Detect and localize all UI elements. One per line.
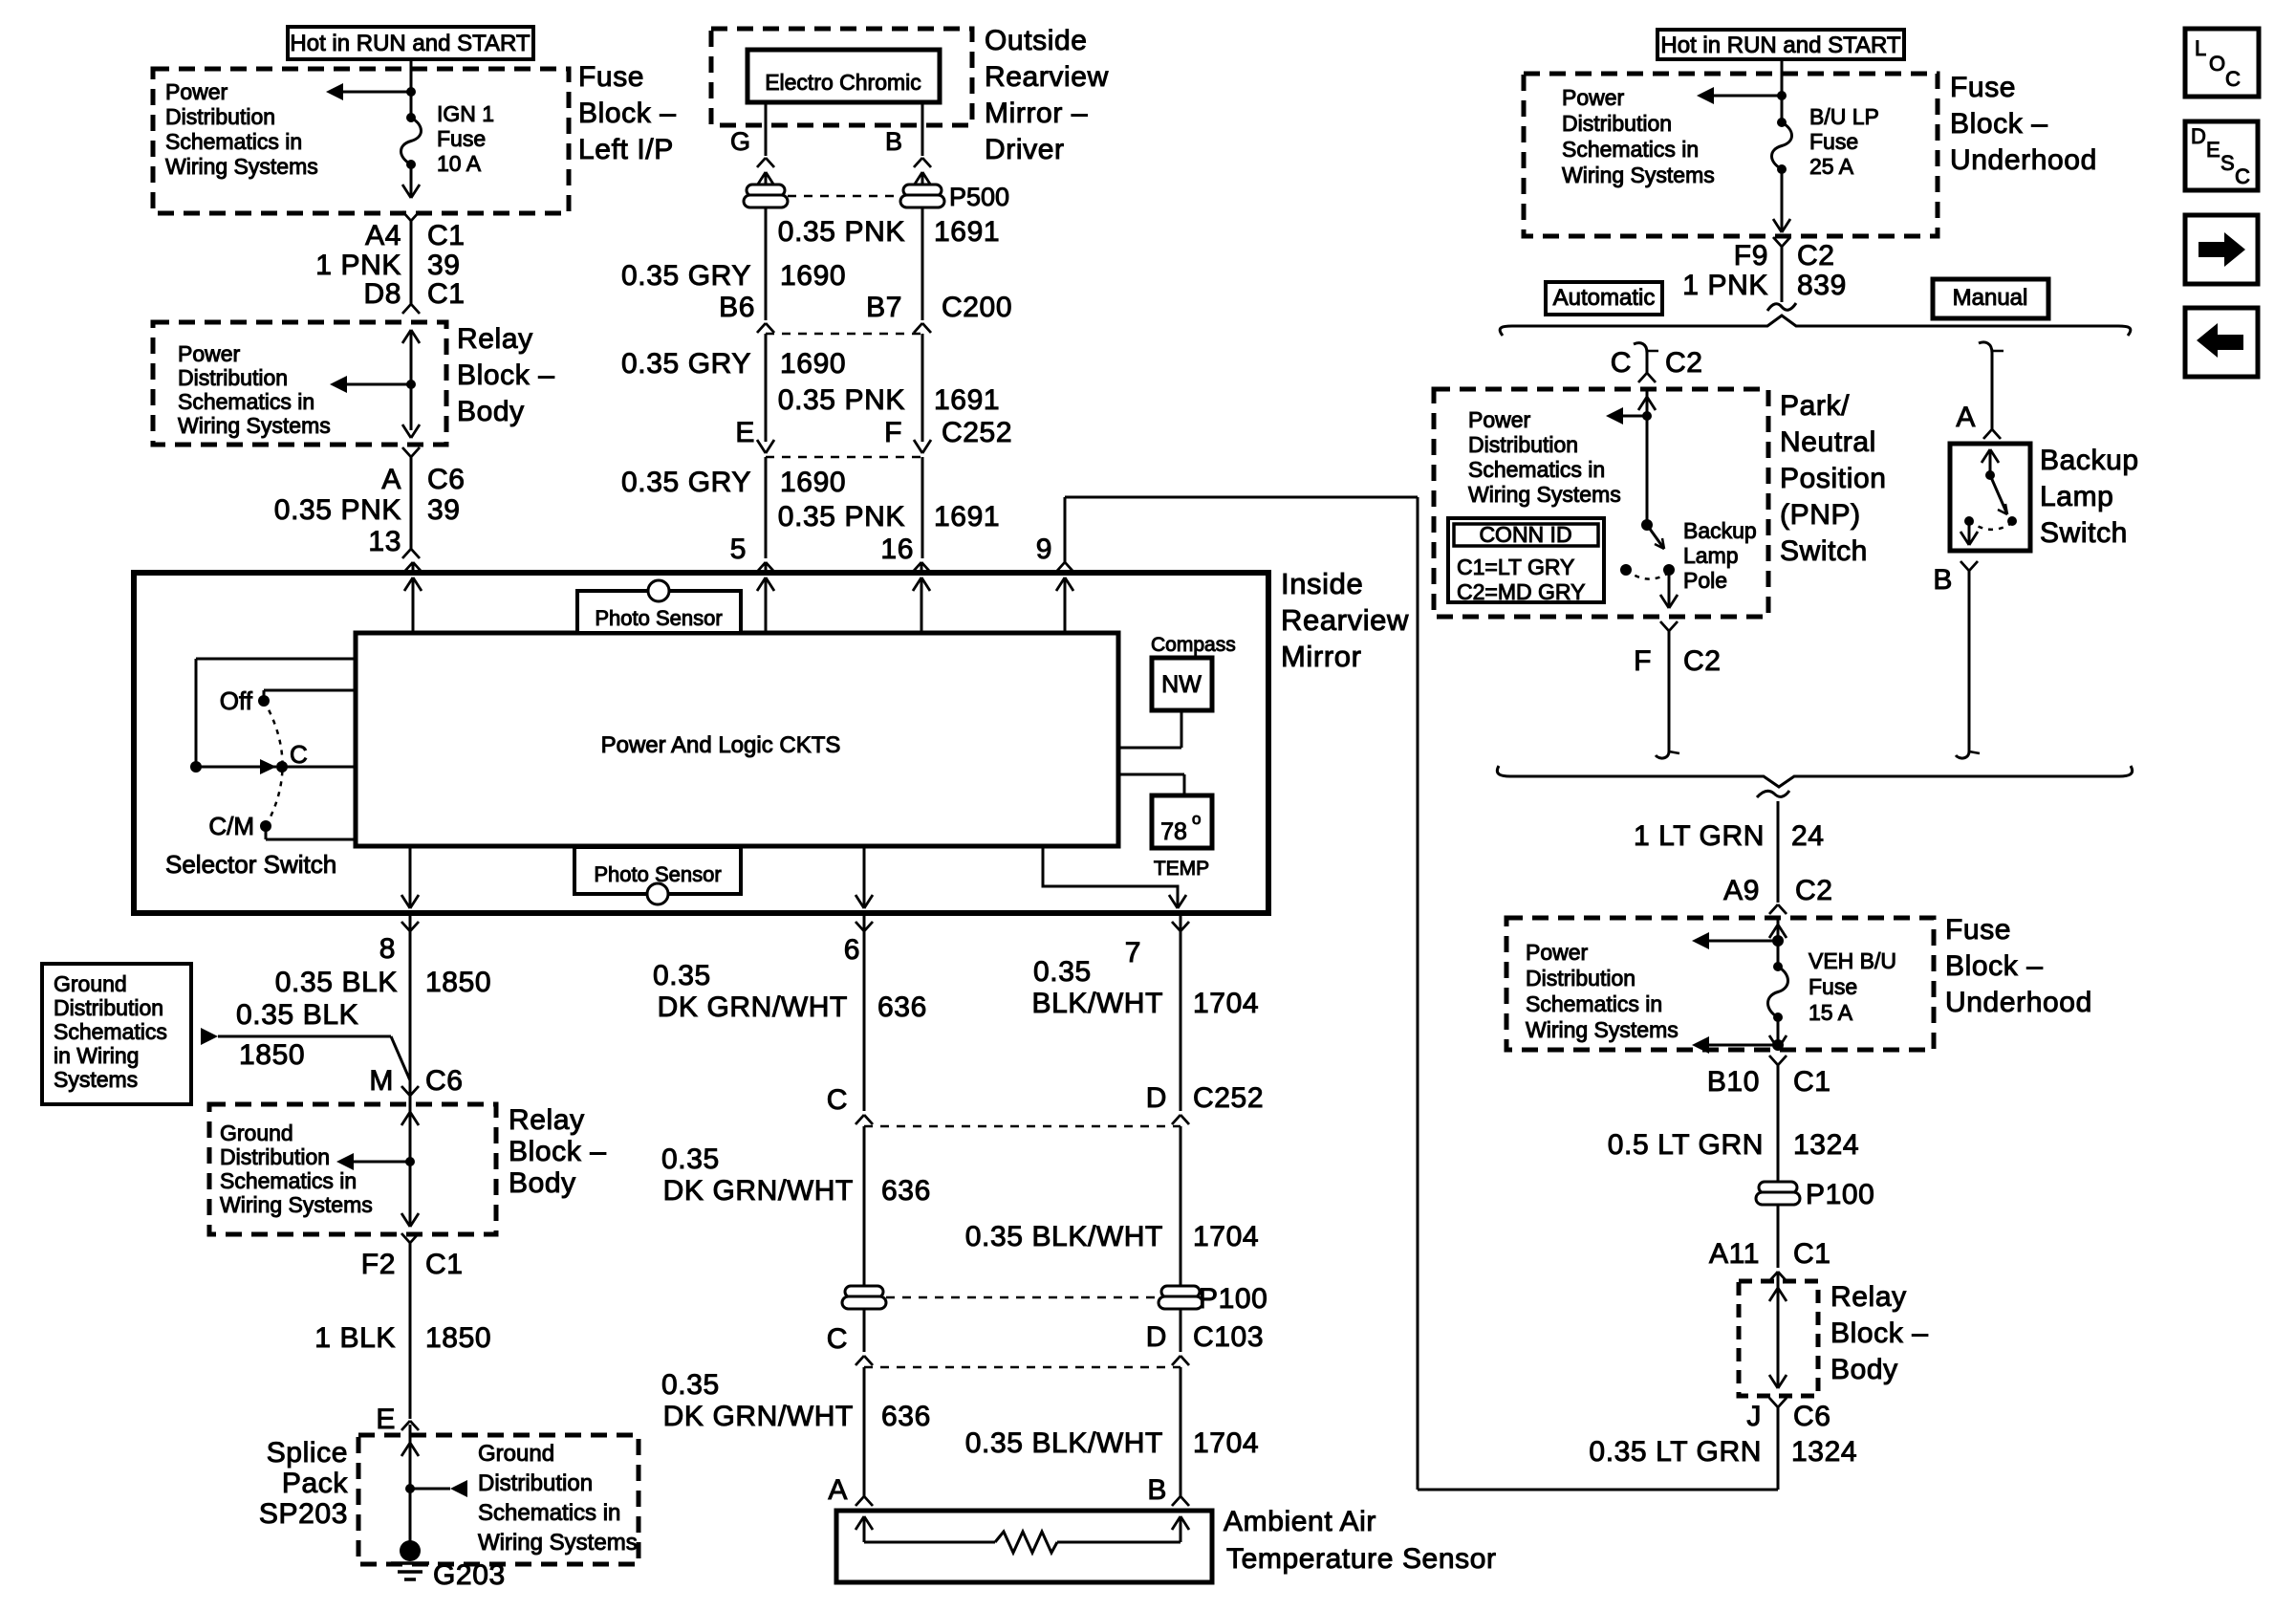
svg-text:SP203: SP203 [259, 1498, 348, 1530]
svg-text:Block –: Block – [1950, 108, 2048, 140]
svg-text:DK GRN/WHT: DK GRN/WHT [663, 1175, 854, 1207]
svg-text:Switch: Switch [2040, 517, 2128, 549]
svg-text:Ground: Ground [478, 1441, 554, 1467]
svg-text:1 LT GRN: 1 LT GRN [1634, 820, 1765, 852]
svg-text:7: 7 [1125, 937, 1141, 969]
svg-text:0.5 LT GRN: 0.5 LT GRN [1608, 1129, 1764, 1161]
svg-text:C6: C6 [425, 1065, 464, 1097]
svg-text:Rearview: Rearview [1281, 603, 1409, 637]
svg-text:Distribution: Distribution [54, 995, 163, 1020]
svg-text:in Wiring: in Wiring [54, 1043, 139, 1068]
svg-text:Manual: Manual [1953, 285, 2028, 311]
svg-text:1690: 1690 [780, 467, 846, 498]
svg-text:C1: C1 [427, 278, 466, 310]
svg-text:Hot in RUN and START: Hot in RUN and START [290, 31, 531, 56]
svg-text:Lamp: Lamp [2040, 481, 2113, 512]
svg-text:D: D [2191, 124, 2206, 148]
svg-text:Distribution: Distribution [220, 1144, 330, 1169]
svg-text:Mirror: Mirror [1281, 640, 1362, 673]
svg-text:Pack: Pack [282, 1468, 348, 1499]
svg-text:C2: C2 [1665, 347, 1703, 379]
svg-text:A: A [381, 464, 401, 495]
svg-text:39: 39 [427, 494, 461, 526]
svg-text:C1: C1 [427, 220, 466, 251]
svg-text:1850: 1850 [239, 1039, 305, 1071]
svg-text:Power: Power [1562, 85, 1625, 110]
svg-text:C103: C103 [1193, 1321, 1264, 1353]
svg-text:E: E [2206, 138, 2220, 162]
svg-text:Neutral: Neutral [1780, 426, 1876, 458]
svg-text:Body: Body [1830, 1354, 1898, 1385]
svg-text:B: B [1933, 564, 1953, 596]
svg-text:B7: B7 [866, 292, 902, 323]
svg-text:Block –: Block – [578, 98, 677, 129]
svg-text:C6: C6 [427, 464, 466, 495]
svg-text:F2: F2 [361, 1249, 396, 1280]
svg-text:BLK/WHT: BLK/WHT [1031, 988, 1163, 1019]
svg-text:Relay: Relay [509, 1104, 585, 1136]
svg-text:Block –: Block – [1830, 1317, 1929, 1349]
svg-text:C2: C2 [1797, 240, 1835, 272]
svg-text:Fuse: Fuse [1950, 72, 2016, 103]
svg-text:Ground: Ground [54, 971, 127, 996]
svg-text:Schematics: Schematics [54, 1019, 167, 1044]
svg-text:1691: 1691 [934, 216, 1000, 248]
svg-text:Off: Off [220, 686, 253, 715]
svg-text:A4: A4 [365, 220, 401, 251]
svg-text:1690: 1690 [780, 348, 846, 380]
svg-text:8: 8 [379, 933, 396, 965]
svg-text:C6: C6 [1793, 1401, 1831, 1432]
svg-text:Schematics in: Schematics in [220, 1168, 357, 1193]
svg-text:839: 839 [1797, 270, 1847, 301]
svg-text:Selector Switch: Selector Switch [165, 850, 336, 879]
svg-text:Compass: Compass [1151, 634, 1236, 656]
svg-text:Fuse: Fuse [1809, 129, 1858, 154]
svg-text:P100: P100 [1806, 1179, 1874, 1210]
svg-text:Pole: Pole [1683, 568, 1727, 593]
svg-text:NW: NW [1161, 671, 1202, 698]
svg-text:C/M: C/M [208, 812, 254, 840]
svg-text:Wiring Systems: Wiring Systems [1562, 163, 1715, 187]
svg-text:Ambient Air: Ambient Air [1224, 1506, 1376, 1537]
svg-text:Relay: Relay [457, 323, 533, 355]
svg-text:IGN 1: IGN 1 [437, 101, 494, 126]
svg-text:Fuse: Fuse [437, 126, 486, 151]
svg-text:1691: 1691 [934, 384, 1000, 416]
svg-text:Left I/P: Left I/P [578, 134, 674, 165]
svg-text:F: F [1634, 645, 1652, 677]
svg-text:Wiring Systems: Wiring Systems [220, 1192, 373, 1217]
svg-text:Fuse: Fuse [1809, 974, 1857, 999]
svg-text:Splice: Splice [267, 1437, 348, 1469]
svg-text:15 A: 15 A [1809, 1000, 1853, 1025]
svg-text:CONN ID: CONN ID [1479, 522, 1571, 547]
svg-text:S: S [2220, 151, 2235, 175]
svg-text:Power: Power [165, 79, 228, 104]
svg-text:0.35 PNK: 0.35 PNK [274, 494, 401, 526]
svg-text:1324: 1324 [1791, 1436, 1857, 1468]
svg-text:E: E [735, 417, 755, 448]
svg-text:C252: C252 [1193, 1082, 1264, 1114]
svg-text:D: D [1146, 1082, 1167, 1114]
svg-text:B10: B10 [1707, 1066, 1760, 1098]
svg-text:C: C [1611, 347, 1632, 379]
svg-text:A9: A9 [1723, 875, 1760, 906]
svg-text:Schematics in: Schematics in [1562, 137, 1699, 162]
svg-text:(PNP): (PNP) [1780, 499, 1861, 531]
svg-text:25 A: 25 A [1809, 154, 1854, 179]
svg-text:636: 636 [877, 991, 927, 1023]
svg-text:G203: G203 [433, 1559, 506, 1591]
svg-text:78: 78 [1160, 818, 1187, 845]
svg-text:9: 9 [1036, 533, 1052, 565]
svg-text:Power: Power [1468, 407, 1531, 432]
svg-text:1 PNK: 1 PNK [1682, 270, 1768, 301]
svg-text:Position: Position [1780, 463, 1887, 494]
svg-text:Relay: Relay [1830, 1281, 1907, 1313]
svg-text:Underhood: Underhood [1945, 987, 2092, 1018]
svg-text:13: 13 [368, 526, 401, 557]
svg-text:0.35 BLK: 0.35 BLK [236, 999, 358, 1031]
svg-text:1704: 1704 [1193, 1221, 1259, 1252]
svg-text:A: A [1956, 402, 1976, 433]
svg-text:Ground: Ground [220, 1121, 293, 1145]
svg-text:C2: C2 [1683, 645, 1722, 677]
svg-text:0.35: 0.35 [653, 960, 711, 991]
svg-text:1 BLK: 1 BLK [314, 1322, 396, 1354]
svg-text:0.35 GRY: 0.35 GRY [621, 260, 751, 292]
svg-text:636: 636 [881, 1175, 931, 1207]
svg-text:C2: C2 [1795, 875, 1833, 906]
svg-text:C252: C252 [942, 417, 1012, 448]
svg-text:0.35 BLK/WHT: 0.35 BLK/WHT [965, 1427, 1163, 1459]
svg-text:Body: Body [457, 396, 525, 427]
svg-text:Body: Body [509, 1167, 576, 1199]
svg-text:5: 5 [730, 533, 747, 565]
svg-text:Distribution: Distribution [1468, 432, 1578, 457]
svg-text:E: E [376, 1404, 396, 1435]
svg-text:Hot in RUN and START: Hot in RUN and START [1660, 33, 1901, 58]
svg-text:Backup: Backup [2040, 445, 2139, 476]
svg-text:TEMP: TEMP [1154, 858, 1209, 880]
svg-text:A11: A11 [1709, 1238, 1760, 1270]
svg-text:Block –: Block – [457, 359, 555, 391]
svg-text:Outside: Outside [985, 25, 1088, 56]
svg-text:Automatic: Automatic [1553, 285, 1656, 311]
svg-text:Temperature Sensor: Temperature Sensor [1226, 1543, 1497, 1575]
svg-text:G: G [730, 127, 750, 156]
svg-text:6: 6 [844, 934, 860, 966]
svg-text:Fuse: Fuse [1945, 914, 2011, 946]
svg-text:Lamp: Lamp [1683, 543, 1739, 568]
svg-text:Wiring Systems: Wiring Systems [1468, 482, 1621, 507]
svg-text:L: L [2195, 36, 2206, 60]
svg-text:1704: 1704 [1193, 1427, 1259, 1459]
svg-text:Systems: Systems [54, 1067, 138, 1092]
svg-text:0.35 PNK: 0.35 PNK [778, 501, 905, 533]
svg-text:10 A: 10 A [437, 151, 482, 176]
svg-text:1 PNK: 1 PNK [315, 250, 401, 281]
svg-text:Electro Chromic: Electro Chromic [765, 70, 921, 95]
svg-text:C200: C200 [942, 292, 1012, 323]
svg-text:Power: Power [178, 341, 241, 366]
svg-text:Distribution: Distribution [165, 104, 275, 129]
svg-text:C1=LT GRY: C1=LT GRY [1457, 555, 1574, 579]
svg-text:M: M [369, 1065, 394, 1097]
svg-text:C: C [2225, 67, 2241, 91]
svg-text:0.35 GRY: 0.35 GRY [621, 467, 751, 498]
svg-text:B/U LP: B/U LP [1809, 104, 1879, 129]
svg-text:0.35 PNK: 0.35 PNK [778, 216, 905, 248]
svg-text:C: C [290, 740, 308, 769]
svg-text:Power And Logic CKTS: Power And Logic CKTS [601, 732, 841, 758]
svg-text:P500: P500 [949, 183, 1009, 211]
svg-text:B: B [885, 127, 902, 156]
svg-text:DK GRN/WHT: DK GRN/WHT [663, 1401, 854, 1432]
svg-text:Fuse: Fuse [578, 61, 644, 93]
svg-text:F9: F9 [1734, 240, 1768, 272]
svg-text:0.35 GRY: 0.35 GRY [621, 348, 751, 380]
svg-text:Schematics in: Schematics in [478, 1500, 620, 1526]
svg-text:B: B [1147, 1474, 1167, 1506]
svg-text:D8: D8 [363, 278, 401, 310]
svg-text:C2=MD GRY: C2=MD GRY [1457, 579, 1585, 604]
svg-text:Block –: Block – [1945, 950, 2044, 982]
svg-text:636: 636 [881, 1401, 931, 1432]
svg-text:B6: B6 [719, 292, 755, 323]
svg-text:F: F [884, 417, 902, 448]
svg-text:1690: 1690 [780, 260, 846, 292]
svg-text:Driver: Driver [985, 134, 1065, 165]
svg-text:1324: 1324 [1793, 1129, 1859, 1161]
svg-text:0.35: 0.35 [661, 1143, 720, 1175]
svg-text:o: o [1192, 810, 1201, 828]
svg-text:0.35: 0.35 [1033, 956, 1092, 988]
svg-text:Wiring Systems: Wiring Systems [165, 154, 318, 179]
svg-text:Schematics in: Schematics in [1526, 991, 1662, 1016]
svg-text:C: C [827, 1323, 848, 1355]
svg-text:Park/: Park/ [1780, 390, 1850, 422]
svg-text:Mirror –: Mirror – [985, 98, 1088, 129]
svg-text:Switch: Switch [1780, 535, 1868, 567]
svg-text:DK GRN/WHT: DK GRN/WHT [658, 991, 848, 1023]
svg-text:C1: C1 [1793, 1238, 1831, 1270]
svg-text:Distribution: Distribution [1526, 966, 1635, 991]
svg-text:Power: Power [1526, 940, 1589, 965]
svg-text:1704: 1704 [1193, 988, 1259, 1019]
svg-text:Backup: Backup [1683, 518, 1757, 543]
svg-text:Schematics in: Schematics in [178, 389, 314, 414]
svg-text:C: C [2235, 164, 2250, 188]
svg-text:0.35 PNK: 0.35 PNK [778, 384, 905, 416]
svg-text:Distribution: Distribution [478, 1470, 593, 1496]
svg-text:Distribution: Distribution [1562, 111, 1672, 136]
svg-text:Rearview: Rearview [985, 61, 1109, 93]
svg-text:24: 24 [1791, 820, 1825, 852]
svg-text:C: C [827, 1084, 848, 1116]
svg-text:0.35: 0.35 [661, 1369, 720, 1401]
svg-text:C1: C1 [1793, 1066, 1831, 1098]
svg-text:A: A [828, 1474, 848, 1506]
svg-text:16: 16 [880, 533, 914, 565]
svg-text:Inside: Inside [1281, 567, 1363, 600]
svg-text:Wiring Systems: Wiring Systems [478, 1530, 638, 1556]
svg-text:Underhood: Underhood [1950, 144, 2097, 176]
svg-text:VEH B/U: VEH B/U [1809, 948, 1896, 973]
svg-text:Block –: Block – [509, 1136, 607, 1167]
svg-text:J: J [1746, 1401, 1762, 1432]
svg-text:Wiring Systems: Wiring Systems [1526, 1017, 1679, 1042]
svg-text:C1: C1 [425, 1249, 464, 1280]
svg-text:1850: 1850 [425, 967, 491, 998]
svg-text:O: O [2209, 52, 2225, 76]
svg-text:P100: P100 [1199, 1283, 1267, 1315]
svg-text:1850: 1850 [425, 1322, 491, 1354]
svg-text:0.35 LT GRN: 0.35 LT GRN [1589, 1436, 1762, 1468]
svg-text:Schematics in: Schematics in [165, 129, 302, 154]
svg-text:Photo Sensor: Photo Sensor [595, 606, 722, 630]
svg-text:Wiring Systems: Wiring Systems [178, 413, 331, 438]
svg-text:Distribution: Distribution [178, 365, 288, 390]
svg-text:0.35 BLK: 0.35 BLK [275, 967, 398, 998]
svg-text:Schematics in: Schematics in [1468, 457, 1605, 482]
svg-text:D: D [1146, 1321, 1167, 1353]
svg-text:0.35 BLK/WHT: 0.35 BLK/WHT [965, 1221, 1163, 1252]
svg-text:1691: 1691 [934, 501, 1000, 533]
svg-text:39: 39 [427, 250, 461, 281]
